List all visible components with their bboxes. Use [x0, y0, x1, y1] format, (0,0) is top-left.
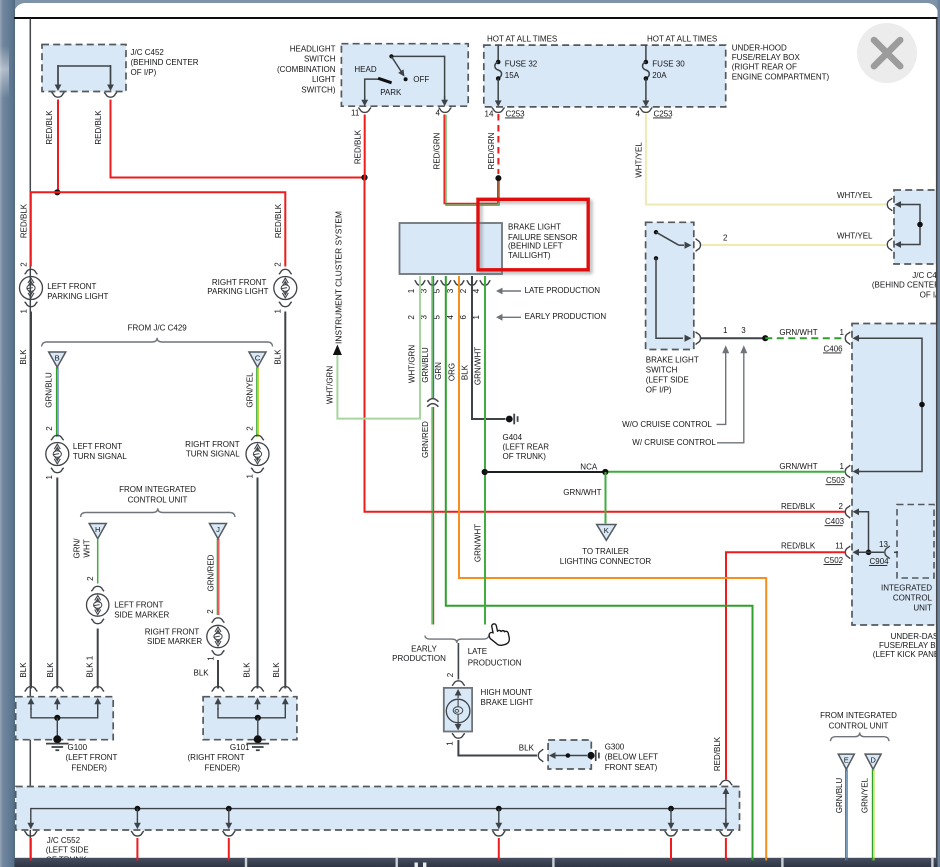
svg-text:(BEHIND LEFT: (BEHIND LEFT — [508, 242, 563, 251]
junction connector J/C C4xx (behind center of I/P) — [894, 190, 940, 264]
svg-text:FUSE 30: FUSE 30 — [652, 59, 685, 68]
svg-text:WHT/YEL: WHT/YEL — [634, 142, 643, 178]
node C552 junction x=498.8 — [496, 806, 502, 812]
svg-text:TO TRAILER: TO TRAILER — [582, 547, 629, 556]
svg-text:1: 1 — [472, 315, 481, 320]
wire GRN/BLU sensor pin down — [431, 276, 433, 398]
wire tips entering footer — [30, 858, 32, 861]
wire GRN/YEL from D — [871, 769, 873, 858]
svg-text:EARLY PRODUCTION: EARLY PRODUCTION — [525, 312, 607, 321]
J/C C4xx pin bump bottom — [887, 238, 892, 251]
sensor pin bumps — [415, 280, 426, 285]
brace FROM INTEGRATED CONTROL UNIT right — [830, 733, 889, 742]
connector C904 bump — [885, 546, 890, 559]
svg-text:GRN/: GRN/ — [73, 538, 82, 559]
svg-text:BLK: BLK — [194, 668, 210, 677]
svg-text:RIGHT FRONT: RIGHT FRONT — [185, 440, 240, 449]
svg-text:PARKING LIGHT: PARKING LIGHT — [47, 292, 108, 301]
headlight switch HEAD/PARK contact — [365, 79, 379, 100]
svg-text:GRN/YEL: GRN/YEL — [245, 372, 254, 408]
svg-text:GRN/WHT: GRN/WHT — [473, 524, 482, 562]
svg-text:LIGHT: LIGHT — [312, 75, 336, 84]
junction connector J/C C452 (behind center of I/P) — [42, 45, 126, 92]
wire GRN/BLU from E — [845, 769, 847, 858]
brace early/late production — [425, 636, 489, 643]
headlight switch OFF branch wire — [391, 56, 444, 100]
svg-text:RED/BLK: RED/BLK — [781, 541, 816, 550]
svg-text:HOT AT ALL TIMES: HOT AT ALL TIMES — [647, 34, 717, 43]
C552 internal bus — [31, 809, 726, 820]
footer separator x=244.8 — [245, 858, 247, 867]
svg-text:4: 4 — [636, 109, 641, 118]
ICU internal wire C403 to C502 — [858, 512, 869, 553]
svg-text:PARKING LIGHT: PARKING LIGHT — [207, 287, 268, 296]
svg-text:K: K — [604, 526, 609, 535]
svg-text:RED/BLK: RED/BLK — [713, 736, 722, 771]
svg-text:2: 2 — [459, 288, 468, 293]
svg-text:SWITCH: SWITCH — [304, 55, 336, 64]
svg-text:FROM J/C C429: FROM J/C C429 — [128, 323, 188, 332]
close button — [857, 23, 917, 83]
svg-text:15A: 15A — [505, 71, 520, 80]
wire WHT/YEL from fuse 30 to J/C top pin — [646, 114, 886, 205]
wire RED/BLK from J/C C452 left pin down — [57, 100, 59, 193]
svg-text:RED/BLK: RED/BLK — [781, 502, 816, 511]
svg-text:GRN: GRN — [434, 362, 443, 380]
svg-text:1: 1 — [19, 309, 28, 314]
wire GRN/WHT side marker — [97, 539, 99, 584]
svg-text:FENDER): FENDER) — [71, 763, 107, 772]
svg-text:2: 2 — [839, 502, 844, 511]
svg-text:C: C — [255, 353, 261, 362]
svg-text:(BEHIND CENTER: (BEHIND CENTER — [131, 58, 199, 67]
svg-text:2: 2 — [723, 233, 728, 242]
svg-text:LEFT FRONT: LEFT FRONT — [47, 282, 96, 291]
svg-text:4: 4 — [446, 315, 455, 320]
ground G404 — [506, 416, 513, 423]
G101 entry bumps — [212, 687, 225, 692]
high mount brake light bulb — [457, 695, 459, 699]
svg-text:WHT/YEL: WHT/YEL — [837, 191, 873, 200]
svg-text:GRN/WHT: GRN/WHT — [474, 347, 483, 385]
svg-text:FUSE/RELAY BOX: FUSE/RELAY BOX — [732, 53, 801, 62]
node G100 junction — [54, 715, 60, 721]
connector C503 bump — [845, 465, 850, 478]
under-dash fuse/relay box with integrated control unit — [852, 324, 940, 626]
J/C C452 pin bump left — [52, 92, 65, 97]
svg-text:GRN/WHT: GRN/WHT — [779, 462, 817, 471]
node ICU junction C502 — [866, 550, 872, 556]
EARLY PRODUCTION arrow — [502, 316, 522, 318]
svg-text:RED/GRN: RED/GRN — [433, 132, 442, 169]
wire WHT/YEL from brake switch to J/C bottom pin — [701, 244, 886, 246]
svg-text:1: 1 — [45, 475, 54, 480]
svg-text:LATE: LATE — [468, 647, 487, 656]
ground G100 junction box — [16, 697, 114, 740]
svg-text:4: 4 — [436, 108, 441, 117]
svg-text:BLK: BLK — [19, 349, 28, 365]
svg-text:BRAKE LIGHT: BRAKE LIGHT — [481, 698, 534, 707]
wire BLK sensor pin to G404 — [472, 276, 506, 419]
svg-text:ORG: ORG — [447, 363, 456, 381]
svg-text:PRODUCTION: PRODUCTION — [468, 658, 522, 667]
svg-text:CONTROL UNIT: CONTROL UNIT — [128, 495, 188, 504]
node C552 junction x=228.8 — [226, 806, 232, 812]
footer dark bar (bottom components row) — [15, 858, 940, 867]
wire GRN/RED continuation to early production brace — [431, 407, 433, 625]
footer partial text M — [415, 863, 418, 867]
diagram frame right edge (overlay) — [936, 19, 938, 858]
left front side marker bulb — [91, 586, 104, 591]
svg-text:G101: G101 — [230, 743, 250, 752]
diagram frame right edge — [936, 19, 938, 858]
G300 internal wire — [555, 755, 558, 757]
svg-text:1: 1 — [723, 326, 728, 335]
node RED/GRN junction — [495, 175, 501, 181]
svg-text:C904: C904 — [870, 557, 890, 566]
svg-text:HIGH MOUNT: HIGH MOUNT — [481, 688, 533, 697]
svg-text:BLK: BLK — [272, 662, 281, 678]
svg-text:6: 6 — [459, 315, 468, 320]
node ICU junction — [919, 402, 925, 408]
wire RED/GRN dashed from fuse 32 — [497, 114, 499, 174]
connector C253 pin 4 bump — [640, 108, 653, 113]
svg-text:G100: G100 — [68, 743, 88, 752]
svg-text:OF TRUNK): OF TRUNK) — [503, 452, 547, 461]
node G300 splice — [566, 753, 571, 758]
svg-text:3: 3 — [446, 288, 455, 293]
svg-text:C503: C503 — [826, 476, 846, 485]
node brake switch junction — [762, 335, 768, 341]
J/C C4xx internal wire — [897, 205, 920, 245]
svg-text:ENGINE COMPARTMENT): ENGINE COMPARTMENT) — [732, 72, 830, 81]
wire GRN/WHT dashed to C406 — [765, 337, 845, 339]
svg-text:INTEGRATED: INTEGRATED — [881, 584, 932, 593]
brake switch contact A — [654, 230, 658, 234]
svg-text:13: 13 — [879, 540, 888, 549]
svg-text:TAILLIGHT): TAILLIGHT) — [508, 251, 551, 260]
svg-text:BLK: BLK — [46, 662, 55, 678]
instrument cluster arrow — [333, 345, 342, 356]
svg-text:FUSE/RELAY BOX: FUSE/RELAY BOX — [879, 641, 940, 650]
svg-text:NCA: NCA — [580, 463, 598, 472]
svg-text:BRAKE LIGHT: BRAKE LIGHT — [646, 356, 699, 365]
svg-text:(RIGHT REAR OF: (RIGHT REAR OF — [732, 63, 797, 72]
svg-text:LEFT FRONT: LEFT FRONT — [73, 442, 122, 451]
svg-text:C406: C406 — [824, 344, 844, 353]
svg-text:11: 11 — [351, 108, 360, 117]
svg-text:G300: G300 — [605, 742, 625, 751]
G300 pin bump — [538, 749, 543, 762]
svg-text:2: 2 — [274, 262, 283, 267]
svg-text:4: 4 — [472, 288, 481, 293]
svg-text:UNDER-HOOD: UNDER-HOOD — [732, 44, 787, 53]
svg-text:OF I/P): OF I/P) — [131, 68, 157, 77]
node C552 junction x=137.4 — [135, 806, 141, 812]
svg-text:RIGHT FRONT: RIGHT FRONT — [212, 278, 267, 287]
svg-text:2: 2 — [45, 426, 54, 431]
wire BLK left turn down — [56, 478, 58, 689]
wire BLK right turn down — [257, 478, 259, 689]
node parking bus junction — [54, 189, 60, 195]
inner ICU dashed box C904 unit — [897, 505, 934, 579]
brace FROM INTEGRATED CONTROL UNIT — [81, 508, 236, 517]
svg-text:(BEHIND CENTER: (BEHIND CENTER — [872, 281, 940, 290]
svg-text:INSTRUMENT CLUSTER SYSTEM: INSTRUMENT CLUSTER SYSTEM — [334, 211, 344, 344]
svg-text:2: 2 — [86, 576, 95, 581]
svg-text:CONTROL UNIT: CONTROL UNIT — [829, 721, 889, 730]
wire WHT/GRN to instrument cluster — [337, 276, 420, 419]
wire RED/BLK to C502 — [726, 552, 846, 779]
svg-text:(LEFT KICK PANEL): (LEFT KICK PANEL) — [873, 650, 940, 659]
svg-text:G404: G404 — [503, 433, 523, 442]
J/C C452 pin bump right — [104, 92, 117, 97]
fuse 32 15A — [497, 45, 499, 61]
headlight switch pin 11 bump — [358, 108, 371, 113]
svg-text:D: D — [870, 755, 876, 764]
svg-text:FROM INTEGRATED: FROM INTEGRATED — [820, 711, 897, 720]
svg-text:J/C C452: J/C C452 — [131, 48, 165, 57]
svg-text:HEADLIGHT: HEADLIGHT — [290, 45, 336, 54]
svg-text:OF I/P): OF I/P) — [646, 385, 672, 394]
svg-text:1: 1 — [407, 288, 416, 293]
footer separator x=552.2 — [552, 858, 554, 867]
svg-text:2: 2 — [206, 609, 215, 614]
connector triangle H — [89, 524, 106, 539]
svg-text:J/C C552: J/C C552 — [47, 836, 81, 845]
svg-text:BLK: BLK — [19, 662, 28, 678]
svg-text:HEAD: HEAD — [354, 65, 376, 74]
ground G300 box — [548, 740, 591, 769]
svg-text:(LEFT REAR: (LEFT REAR — [503, 443, 550, 452]
connector triangle E — [838, 754, 854, 769]
G100 entry bumps — [25, 687, 38, 692]
right front parking light bulb — [279, 269, 292, 274]
right front side marker bulb — [212, 618, 225, 623]
J/C C4xx pin bump top — [887, 198, 892, 211]
brake switch pin 2 bump — [696, 239, 701, 252]
wire GRN/RED side marker — [216, 539, 218, 615]
svg-text:FAILURE SENSOR: FAILURE SENSOR — [508, 233, 578, 242]
svg-text:SIDE MARKER: SIDE MARKER — [114, 611, 169, 620]
wire RED/GRN from headlight pin 4 — [444, 115, 498, 204]
svg-text:BLK: BLK — [519, 743, 535, 752]
svg-text:GRN/BLU: GRN/BLU — [835, 777, 844, 813]
svg-text:GRN/RED: GRN/RED — [207, 554, 216, 591]
svg-text:(BELOW LEFT: (BELOW LEFT — [605, 753, 658, 762]
wire BLK high mount to G300 — [458, 740, 537, 756]
svg-text:E: E — [844, 755, 849, 764]
svg-text:3: 3 — [741, 326, 746, 335]
wire GRN/WHT to trailer connector — [605, 472, 607, 524]
svg-text:BLK: BLK — [460, 364, 469, 380]
brake light failure sensor box — [400, 223, 503, 274]
footer separator x=781.2 — [781, 858, 783, 867]
connector C502 bump — [845, 546, 850, 559]
node G101 junction — [255, 715, 261, 721]
wire BLK left side marker — [97, 629, 99, 689]
C552 top entry bump — [720, 780, 733, 785]
node J/C C4xx junction — [917, 222, 923, 228]
wire GRN/YEL right turn — [256, 367, 258, 437]
connector C406 bump — [845, 332, 850, 345]
svg-text:LIGHTING CONNECTOR: LIGHTING CONNECTOR — [560, 557, 652, 566]
svg-text:WHT/GRN: WHT/GRN — [408, 345, 417, 383]
ground symbol G101 — [254, 735, 262, 743]
brake switch pin 1 bump — [696, 332, 701, 345]
svg-text:(RIGHT FRONT: (RIGHT FRONT — [188, 753, 245, 762]
svg-text:1: 1 — [840, 462, 845, 471]
C552 exit bumps and red stubs — [24, 831, 37, 836]
svg-text:PRODUCTION: PRODUCTION — [392, 654, 446, 663]
wire NCA — [485, 471, 606, 473]
svg-text:RED/BLK: RED/BLK — [19, 203, 28, 238]
high mount brake light pin bump top — [452, 681, 465, 686]
svg-text:BLK: BLK — [85, 662, 94, 678]
svg-text:1: 1 — [246, 474, 255, 479]
svg-text:B: B — [55, 353, 60, 362]
node NCA junction left — [482, 469, 488, 475]
svg-text:(LEFT SIDE: (LEFT SIDE — [46, 846, 89, 855]
svg-text:1: 1 — [840, 328, 845, 337]
wire RED/BLK from J/C C452 right pin to bus A — [111, 100, 365, 178]
diagram frame left edge — [29, 19, 31, 858]
headlight switch (combination light switch) — [341, 44, 468, 106]
svg-text:2: 2 — [246, 426, 255, 431]
svg-text:(COMBINATION: (COMBINATION — [277, 65, 336, 74]
high mount pin bump bottom — [452, 733, 465, 738]
svg-text:GRN/WHT: GRN/WHT — [563, 488, 601, 497]
junction connector J/C C552 (left side of trunk) — [16, 787, 740, 831]
footer separator x=395.5 — [396, 858, 398, 867]
connector triangle D — [865, 754, 881, 769]
svg-text:GRN/RED: GRN/RED — [421, 421, 430, 458]
wire GRN/BLU left turn — [56, 367, 58, 437]
svg-text:PARK: PARK — [380, 88, 402, 97]
svg-text:RED/BLK: RED/BLK — [45, 110, 54, 145]
svg-text:SIDE MARKER: SIDE MARKER — [147, 637, 202, 646]
wire GRN/WHT to C503 — [605, 471, 845, 473]
svg-text:W/ CRUISE CONTROL: W/ CRUISE CONTROL — [632, 438, 716, 447]
brake switch arm — [656, 232, 679, 245]
ground symbol G100 — [53, 735, 61, 743]
connector C403 bump — [845, 505, 850, 518]
svg-text:J/C C45: J/C C45 — [912, 271, 940, 280]
wire GRN sensor pin to bottom — [446, 276, 753, 858]
svg-text:WHT/GRN: WHT/GRN — [325, 366, 334, 404]
svg-text:GRN/YEL: GRN/YEL — [861, 777, 870, 813]
wire to high mount brake light — [457, 643, 459, 680]
svg-text:C253: C253 — [654, 109, 674, 118]
svg-text:WHT: WHT — [83, 539, 92, 557]
svg-text:OFF: OFF — [413, 75, 429, 84]
svg-text:TURN SIGNAL: TURN SIGNAL — [73, 452, 127, 461]
ground symbol G300 — [587, 752, 594, 759]
svg-text:20A: 20A — [652, 71, 667, 80]
mouse cursor hand pointer — [487, 621, 510, 647]
connector triangle C — [249, 352, 266, 367]
right front turn signal bulb — [251, 435, 264, 440]
connector triangle J — [210, 524, 227, 539]
svg-text:2: 2 — [407, 315, 416, 320]
svg-text:C403: C403 — [825, 517, 845, 526]
fuse 30 20A — [645, 45, 647, 61]
headlight switch wiper arm to OFF — [391, 56, 401, 72]
svg-text:14: 14 — [485, 109, 494, 118]
wire RED/BLK headlight pin 11 down — [364, 115, 366, 178]
J/C C452 internal wire loop — [58, 66, 111, 85]
svg-text:LEFT FRONT: LEFT FRONT — [114, 600, 163, 609]
svg-text:GRN/BLU: GRN/BLU — [421, 347, 430, 383]
svg-text:RIGHT FRONT: RIGHT FRONT — [145, 627, 200, 636]
footer separator x=931.2 — [931, 858, 933, 867]
wire RED/BLK parking light bus — [31, 192, 285, 266]
svg-text:FRONT SEAT): FRONT SEAT) — [605, 763, 658, 772]
svg-text:UNDER-DASH: UNDER-DASH — [891, 632, 940, 641]
svg-text:BLK: BLK — [243, 662, 252, 678]
LATE PRODUCTION arrow — [502, 290, 522, 292]
under-hood fuse/relay box — [484, 45, 726, 107]
svg-text:(LEFT FRONT: (LEFT FRONT — [66, 753, 118, 762]
ground G101 junction box — [203, 697, 297, 740]
svg-text:RED/GRN: RED/GRN — [487, 132, 496, 169]
headlight switch pin 4 bump — [439, 108, 452, 113]
svg-text:1: 1 — [274, 309, 283, 314]
wire break symbol — [427, 399, 438, 402]
svg-text:SWITCH): SWITCH) — [301, 85, 336, 94]
wire GRN/WHT sensor pin to late production brace — [484, 276, 486, 625]
wire ORG sensor pin to bottom — [459, 276, 766, 858]
wire BLK left parking down — [30, 312, 32, 689]
svg-text:LATE PRODUCTION: LATE PRODUCTION — [525, 286, 601, 295]
svg-text:1: 1 — [446, 741, 455, 746]
node NCA junction right — [602, 469, 608, 475]
G100 internal bus — [31, 708, 98, 718]
connector triangle B — [49, 352, 66, 367]
svg-text:BRAKE LIGHT: BRAKE LIGHT — [508, 222, 561, 231]
svg-text:GRN/BLU: GRN/BLU — [44, 372, 53, 408]
wire BLK right side marker — [217, 660, 219, 689]
svg-text:H: H — [95, 525, 100, 534]
svg-text:(LEFT SIDE: (LEFT SIDE — [646, 375, 689, 384]
brace FROM J/C C429 — [42, 338, 273, 347]
connector triangle K — [597, 525, 616, 541]
brake switch contact B — [654, 256, 658, 260]
svg-text:BLK: BLK — [274, 349, 283, 365]
wire BLK brake switch output — [701, 337, 765, 339]
svg-text:FROM INTEGRATED: FROM INTEGRATED — [119, 485, 196, 494]
svg-text:C502: C502 — [824, 556, 844, 565]
left front turn signal bulb — [51, 435, 64, 440]
svg-text:CONTROL: CONTROL — [893, 594, 933, 603]
G101 internal bus — [218, 708, 285, 718]
svg-text:RED/BLK: RED/BLK — [94, 110, 103, 145]
svg-text:FUSE 32: FUSE 32 — [505, 59, 538, 68]
svg-text:1: 1 — [86, 655, 95, 660]
svg-text:1: 1 — [207, 656, 216, 661]
brake light switch (left side of I/P) — [646, 222, 694, 349]
svg-text:UNIT: UNIT — [913, 604, 932, 613]
svg-text:RED/BLK: RED/BLK — [353, 129, 362, 164]
C552 exit arrows — [30, 819, 32, 824]
svg-text:2: 2 — [19, 262, 28, 267]
high mount brake light box — [444, 688, 472, 732]
svg-text:2: 2 — [446, 672, 455, 677]
svg-text:RED/BLK: RED/BLK — [274, 203, 283, 238]
svg-text:WHT/YEL: WHT/YEL — [837, 232, 873, 241]
svg-text:C253: C253 — [506, 109, 526, 118]
svg-text:TURN SIGNAL: TURN SIGNAL — [186, 450, 240, 459]
